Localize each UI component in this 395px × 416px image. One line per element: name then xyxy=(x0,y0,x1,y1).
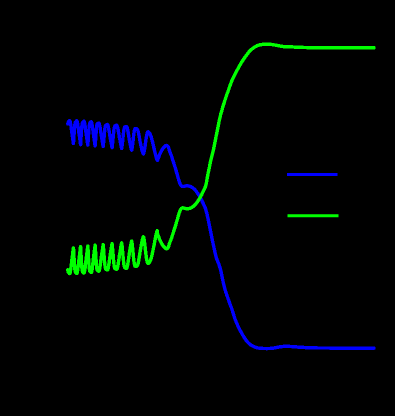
curve P1 (blue population: oscillates, crosses, decays to lower asymptote) xyxy=(68,121,374,349)
legend sample line green xyxy=(288,214,339,217)
legend sample line blue xyxy=(287,173,338,176)
curve P2 (green population: oscillates, crosses, rises to upper asymptote) xyxy=(68,44,374,273)
